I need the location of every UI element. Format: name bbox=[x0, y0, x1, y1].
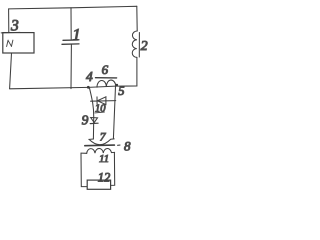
diode 10 cathode bar bbox=[96, 97, 98, 105]
wire right vertical upper bbox=[136, 6, 138, 31]
wire top horizontal bbox=[9, 6, 137, 9]
wire bottom loop right bbox=[111, 152, 115, 185]
capacitor C1 wire upper bbox=[70, 8, 72, 40]
transformer core 6 bbox=[96, 77, 117, 79]
svg-text:11: 11 bbox=[99, 153, 109, 165]
svg-text:3: 3 bbox=[10, 18, 19, 35]
wire right vertical lower bbox=[136, 57, 138, 86]
wire bottom right horizontal bbox=[88, 86, 137, 87]
transformer primary winding 6 bbox=[97, 80, 116, 87]
svg-text:1: 1 bbox=[72, 25, 81, 44]
inductor 2 bbox=[132, 31, 137, 57]
wire bottom loop left bbox=[81, 153, 87, 187]
wire bridge left vertical bbox=[89, 88, 93, 139]
svg-text:2: 2 bbox=[141, 39, 148, 54]
generator box 3 bbox=[3, 33, 34, 53]
svg-text:5: 5 bbox=[118, 84, 124, 98]
svg-text:7: 7 bbox=[100, 132, 107, 144]
load box 12 bbox=[87, 180, 110, 189]
label N bbox=[7, 40, 13, 46]
svg-text:12: 12 bbox=[98, 171, 111, 185]
wire bridge right vertical bbox=[113, 86, 115, 139]
wire bottom horizontal left bbox=[10, 87, 89, 88]
diode 9 triangle bbox=[91, 118, 98, 123]
svg-text:9: 9 bbox=[82, 113, 89, 128]
diode 9 cathode bar bbox=[90, 122, 98, 124]
svg-text:6: 6 bbox=[102, 62, 109, 77]
diode 10 triangle bbox=[97, 97, 106, 105]
secondary winding 11 bbox=[87, 148, 115, 153]
capacitor C1 plates bbox=[63, 39, 78, 41]
wire below box 3 bbox=[10, 53, 12, 89]
winding 7 bbox=[89, 139, 114, 145]
capacitor C1 wire lower bbox=[70, 44, 72, 88]
svg-text:4: 4 bbox=[86, 69, 93, 84]
inductor 2 core bar bbox=[138, 33, 140, 58]
node 5 bbox=[116, 84, 118, 86]
transformer core 8 bbox=[85, 144, 115, 147]
node 4 bbox=[87, 86, 90, 89]
wire secondary left stub bbox=[81, 152, 87, 154]
svg-text:8: 8 bbox=[124, 139, 131, 154]
wire left vertical upper bbox=[8, 9, 10, 33]
diode 10 wire bbox=[91, 100, 116, 103]
